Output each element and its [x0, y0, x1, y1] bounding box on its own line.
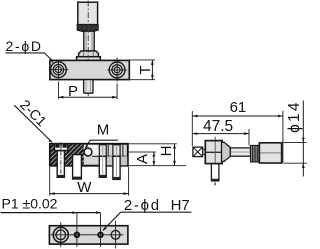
- dimension P: [58, 81, 117, 100]
- dimension T: [130, 60, 156, 80]
- hex nut (side view): [222, 142, 231, 161]
- tip cross box (side view): [193, 147, 203, 157]
- block (top view): [50, 60, 129, 79]
- pin below (side view): [211, 164, 219, 186]
- svg-text:P1 ±0.02: P1 ±0.02: [2, 196, 58, 212]
- svg-text:61: 61: [230, 99, 247, 116]
- hatched section (front view left): [51, 144, 84, 165]
- label 2-phid H7 with leader: [102, 197, 191, 231]
- dimension A: [128, 152, 156, 166]
- dimension H: [128, 144, 186, 166]
- horizontal centerline (bottom view): [51, 234, 124, 236]
- plate (bottom view): [49, 226, 128, 244]
- nut flange (top view): [77, 57, 101, 61]
- tab below block (top view): [84, 80, 93, 94]
- hex nut (top view): [79, 51, 99, 57]
- hole M circle (front view): [84, 148, 92, 156]
- label 2-phiD with leader: [6, 38, 54, 64]
- dimension 47.5: [192, 118, 249, 146]
- centerline of screw axis (top view): [87, 1, 89, 97]
- socket head cap screw (front view, sectioned head): [54, 142, 67, 177]
- stem (side view): [230, 148, 250, 156]
- screw tip stub (side view): [203, 149, 206, 154]
- hole 3 (bottom view): [98, 233, 103, 238]
- hole 1 (bottom view): [53, 222, 68, 247]
- dimension W: [50, 167, 129, 196]
- left hole (top view): [49, 61, 69, 79]
- svg-text:47.5: 47.5: [203, 118, 233, 135]
- svg-text:2-ϕD: 2-ϕD: [6, 38, 43, 54]
- label M with leader: [85, 122, 118, 149]
- knob (side view): [259, 143, 281, 163]
- block body (front view): [50, 144, 128, 166]
- right portion details (front view): [84, 145, 128, 166]
- right hole (top view): [108, 58, 127, 82]
- knurl ring (side view): [251, 145, 260, 162]
- body block (side view): [205, 137, 222, 164]
- dimension P1 +-0.02: [1, 196, 101, 247]
- knob (top view): [78, 2, 98, 24]
- hole 4 (bottom view): [111, 221, 120, 249]
- label 2-C1 with leader: [14, 96, 52, 142]
- pin 3 (front view): [99, 145, 106, 178]
- svg-text:H: H: [158, 146, 175, 157]
- svg-text:T: T: [137, 65, 154, 74]
- knurl band (top view): [77, 25, 98, 32]
- svg-text:M: M: [97, 122, 110, 139]
- svg-text:A: A: [134, 154, 151, 164]
- svg-text:W: W: [77, 179, 92, 196]
- svg-text:ϕ14: ϕ14: [286, 100, 303, 133]
- pin 4 (front view): [113, 145, 120, 180]
- dimension 61: [192, 99, 283, 163]
- hole 2 (bottom view): [75, 233, 80, 238]
- pin 2 (front view): [73, 155, 82, 180]
- stem (top view): [84, 31, 94, 51]
- svg-text:P: P: [68, 83, 78, 100]
- dimension phi14: [284, 100, 307, 176]
